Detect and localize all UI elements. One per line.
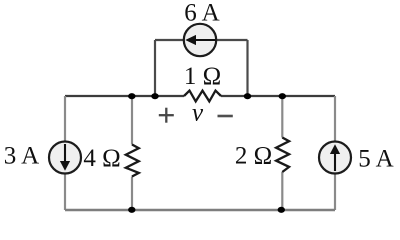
current source I1 6A [184,24,216,56]
svg-text:1 Ω: 1 Ω [184,63,221,90]
wire: main horizontal right (y=96) [221,95,335,97]
wire: top branch horizontal right segment [217,39,248,41]
wire: right edge upper (x=335) [334,96,336,142]
resistor R3 2ohm vertical [276,138,289,173]
resistor R2 4ohm vertical [126,145,139,177]
wire: left edge lower (x=65) [64,174,66,211]
svg-text:v: v [192,100,204,127]
current source I2 3A [49,142,81,174]
wire: bottom (y=210) [65,209,335,211]
svg-text:6 A: 6 A [184,0,219,27]
node dot A (top of 4ohm) [128,93,135,99]
node dot C (bottom of 6A right leg) [244,93,251,99]
wire: 2ohm branch upper (x=282.3) [281,96,283,138]
wire: top branch horizontal left segment [155,39,184,41]
wire: top branch left vertical (x=155, y=40..96) [154,40,156,96]
wire: 2ohm branch lower (x=282.3) [281,172,283,210]
wire: 4ohm branch lower (x=132) [131,177,133,211]
label + (polarity plus) [159,108,174,123]
node dot F (bottom of 2ohm) [278,207,285,213]
svg-text:2 Ω: 2 Ω [235,143,272,170]
node dot D (top of 2ohm) [279,93,286,99]
current source I3 5A [319,142,351,174]
wire: 4ohm branch upper (x=132) [131,96,133,145]
wire: left edge upper (x=65) [64,96,66,142]
node dot E (bottom of 4ohm) [128,207,135,213]
wire: main horizontal left (y=96) [65,95,184,97]
wire: right edge lower (x=335) [334,174,336,211]
svg-text:3 A: 3 A [4,143,39,170]
node dot B (bottom of 6A left leg) [151,93,158,99]
resistor R1 1ohm horizontal [184,91,221,102]
label - (polarity minus) [218,115,233,118]
wire: top branch right vertical (x=247.5, y=40..96) [246,40,248,96]
svg-text:5 A: 5 A [358,146,393,173]
svg-text:4 Ω: 4 Ω [83,145,120,172]
